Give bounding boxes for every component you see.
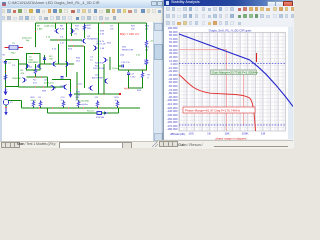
red cursor vline 1 <box>226 49 228 131</box>
blue gain curve <box>179 34 293 107</box>
y axis labels <box>164 27 178 132</box>
svg-text:1K: 1K <box>207 132 211 136</box>
transistor Q7 <box>51 85 55 90</box>
toolbar row 1 <box>0 8 293 16</box>
vertical x44.5 <box>44 55 46 64</box>
rail y77 <box>27 76 48 78</box>
vertical x77 <box>76 72 78 100</box>
dashed blue line 0dB <box>179 63 286 65</box>
wire y59.5 <box>6 59 19 61</box>
svg-text:Phase Margin=81.97 Deg F=175.7: Phase Margin=81.97 Deg F=175.74KHz <box>185 109 240 113</box>
plot panel <box>164 27 288 139</box>
cap C16 <box>122 64 123 67</box>
vertical x66.5 <box>66 44 68 77</box>
output node wire <box>119 69 147 71</box>
cap C1 <box>4 62 7 63</box>
current source arrow <box>70 80 72 93</box>
resistor R26 <box>145 59 147 65</box>
phase margin box <box>183 107 255 113</box>
transistor Q2 <box>70 28 74 33</box>
stability tab bar <box>157 140 293 149</box>
cap C7 <box>60 77 63 78</box>
transistor Q3 <box>82 38 86 43</box>
status bar <box>0 148 293 150</box>
rail y87 <box>19 86 64 88</box>
top supply rail <box>36 22 147 24</box>
stability toolbars <box>164 6 293 14</box>
transistor Q15 <box>22 77 26 82</box>
input source V5 <box>5 47 9 49</box>
svg-text:Dugla_5e0_RL_4_0D.CIR gain: Dugla_5e0_RL_4_0D.CIR gain <box>209 28 252 32</box>
macro box <box>27 54 41 71</box>
svg-text:100: 100 <box>188 132 193 136</box>
diff pair in box <box>25 63 29 68</box>
svg-text:1M: 1M <box>261 132 266 136</box>
grid <box>179 33 286 132</box>
resistor R17 <box>83 24 85 30</box>
dashed blue line -180deg <box>179 124 286 126</box>
rail y64 <box>18 63 27 65</box>
meter element on rail y113 <box>97 112 107 115</box>
mdi child buttons <box>151 1 157 6</box>
source V1 <box>4 100 9 106</box>
resistor RL <box>141 72 143 78</box>
stability window title bar <box>164 0 293 6</box>
red cursor hline <box>179 49 226 51</box>
svg-text:Gain Margin=20.77dB F=1.02MHz: Gain Margin=20.77dB F=1.02MHz <box>212 71 258 75</box>
transistor Q5 <box>52 61 56 66</box>
resistor R2 <box>34 68 36 74</box>
transistor Q11 <box>89 85 93 90</box>
rail y113 <box>47 108 49 113</box>
red cursor vline 2 <box>243 75 245 126</box>
bottom rail <box>22 107 141 109</box>
transistor Q4 <box>93 45 97 50</box>
svg-text:100K: 100K <box>241 132 248 136</box>
vertical x18.5 <box>18 60 20 87</box>
schematic canvas <box>0 22 163 141</box>
red phase curve <box>179 75 256 132</box>
short wire y46 <box>68 45 84 47</box>
mid column wires <box>84 46 86 64</box>
rail 2 <box>50 39 82 41</box>
title buttons <box>267 1 276 7</box>
svg-text:dBGain(db): dBGain(db) <box>170 132 185 136</box>
resize grip <box>150 140 159 148</box>
transistor Q1 <box>55 28 59 33</box>
cap C17 <box>127 73 130 74</box>
vertical wires from top rail <box>35 23 37 47</box>
transistor Q8 <box>63 84 67 89</box>
transistor Q6 <box>65 61 69 66</box>
ground arrow under V1 <box>5 108 8 115</box>
left window vertical scrollbar <box>153 22 163 141</box>
wire y86.5 <box>6 86 19 88</box>
schematic page tab bar <box>0 141 163 149</box>
resistor R24 <box>145 40 147 46</box>
resistor R1 <box>4 74 6 80</box>
stability analysis window <box>163 0 294 148</box>
transistor Q12 <box>103 57 107 62</box>
toolbar row 2 <box>0 15 163 23</box>
red crossover tick <box>256 53 258 62</box>
vertical x58.5 <box>58 44 60 64</box>
main app title bar <box>0 0 293 9</box>
gain margin box <box>211 70 257 75</box>
transistor Q13 <box>104 78 108 83</box>
left column node wire <box>5 60 7 88</box>
svg-text:10K: 10K <box>224 132 229 136</box>
ground arrow left <box>4 88 7 94</box>
bias resistors above bottom rail <box>32 101 34 107</box>
rail y94 <box>74 93 120 95</box>
